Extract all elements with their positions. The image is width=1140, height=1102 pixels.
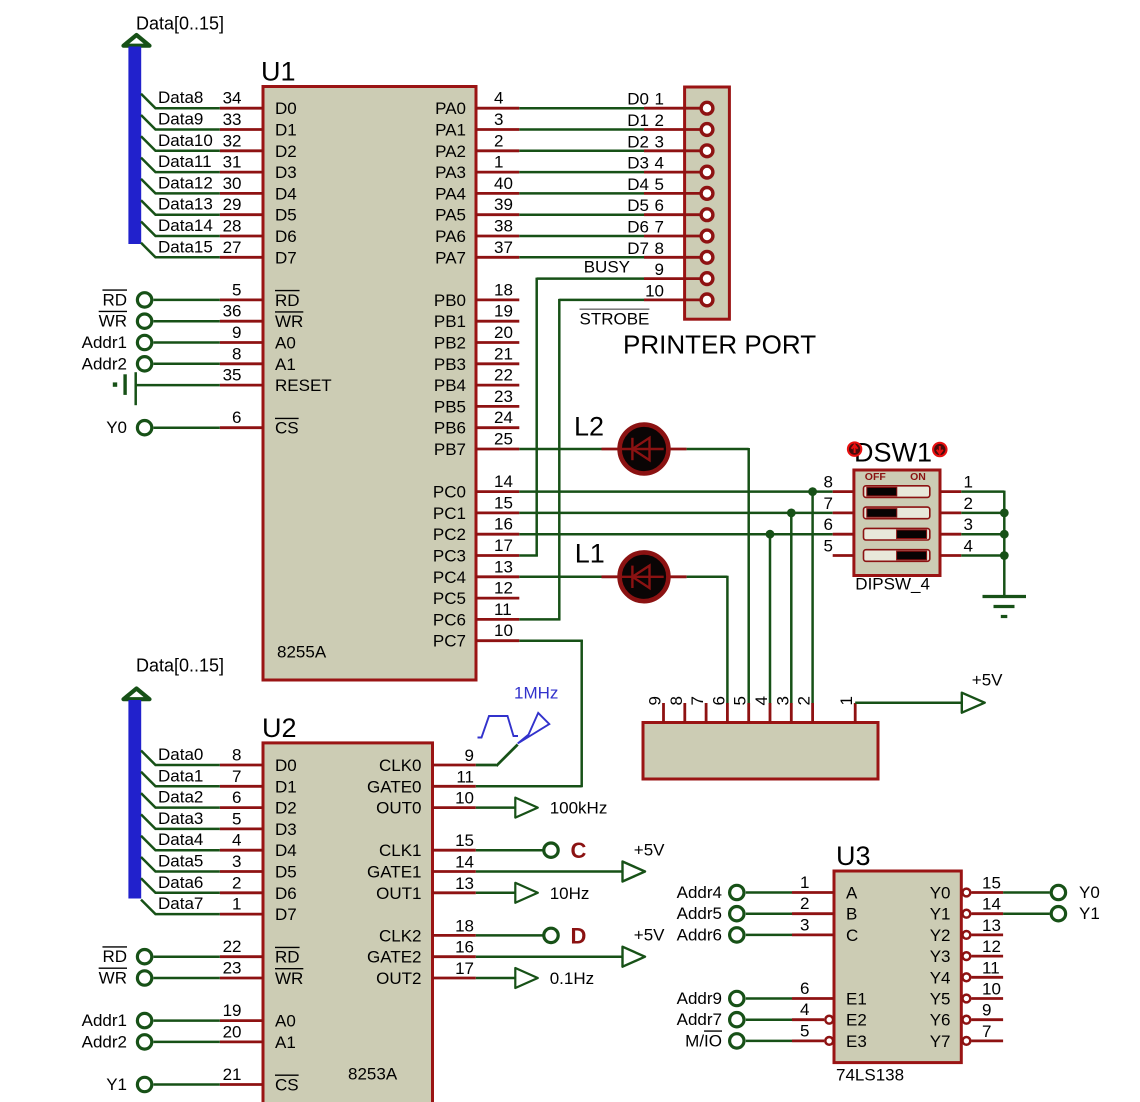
svg-text:PB5: PB5	[434, 397, 466, 416]
wire CLK2 to node D	[476, 934, 544, 937]
svg-text:D0: D0	[627, 90, 649, 109]
svg-text:13: 13	[494, 557, 513, 576]
svg-text:OUT2: OUT2	[376, 969, 421, 988]
pin 9 of printer port	[644, 260, 713, 284]
pin A1 (20) of U2	[220, 1022, 296, 1052]
svg-text:D4: D4	[275, 841, 297, 860]
svg-text:12: 12	[494, 579, 513, 598]
pin RD (5) of U1	[220, 280, 300, 310]
pin 5 of RP1	[731, 696, 750, 722]
pin D2 (6) of U2	[220, 788, 297, 818]
svg-text:9: 9	[646, 696, 665, 705]
pin D7 (27) of U1	[220, 238, 297, 267]
wire RP1 pin1 to +5V	[855, 701, 962, 704]
svg-text:8: 8	[232, 746, 241, 765]
svg-text:PA7: PA7	[435, 248, 466, 267]
pin A (1) of U3	[792, 873, 858, 903]
pin D4 (30) of U1	[220, 174, 297, 204]
svg-text:25: 25	[494, 430, 513, 449]
svg-text:1: 1	[655, 90, 664, 109]
svg-text:D7: D7	[275, 905, 297, 924]
svg-text:D2: D2	[627, 132, 649, 151]
svg-text:Addr7: Addr7	[677, 1010, 722, 1029]
pin Y1 (14) of U3	[930, 895, 1003, 924]
wire Data4 bus entry to U2	[141, 830, 220, 850]
pin 4 of printer port	[644, 154, 713, 178]
svg-text:STROBE: STROBE	[580, 310, 650, 329]
svg-text:U2: U2	[262, 713, 297, 743]
svg-text:33: 33	[223, 110, 242, 129]
svg-text:0.1Hz: 0.1Hz	[550, 969, 594, 988]
svg-text:D2: D2	[275, 142, 297, 161]
svg-text:Y6: Y6	[930, 1011, 951, 1030]
terminal Addr6 (to U3)	[677, 925, 792, 944]
pin RD (22) of U2	[220, 937, 300, 967]
svg-text:6: 6	[800, 979, 809, 998]
svg-text:7: 7	[982, 1022, 991, 1041]
pin Y0 (15) of U3	[930, 874, 1003, 903]
svg-text:D2: D2	[275, 799, 297, 818]
svg-text:D1: D1	[275, 121, 297, 140]
wire GATE1 to +5V	[476, 870, 623, 873]
svg-text:2: 2	[964, 494, 973, 513]
wire OUT0 to 100kHz	[476, 806, 516, 809]
wire Data2 bus entry to U2	[141, 788, 220, 808]
pin WR (36) of U1	[220, 302, 304, 332]
node C terminal	[544, 838, 587, 863]
svg-text:Data10: Data10	[158, 131, 213, 150]
pin GATE1 (14) of U2	[367, 853, 476, 882]
svg-text:A: A	[846, 884, 858, 903]
svg-text:D6: D6	[275, 884, 297, 903]
svg-text:U1: U1	[261, 57, 296, 87]
svg-text:PB7: PB7	[434, 440, 466, 459]
terminal WR (to U2)	[99, 968, 220, 987]
svg-text:5: 5	[731, 696, 750, 705]
svg-text:DIPSW_4: DIPSW_4	[855, 575, 930, 594]
svg-text:8253A: 8253A	[348, 1065, 398, 1084]
svg-text:Data[0..15]: Data[0..15]	[136, 656, 224, 676]
junction and branch to RP1 pin2	[808, 487, 817, 703]
svg-text:22: 22	[494, 366, 513, 385]
svg-text:2: 2	[795, 696, 814, 705]
IC U1 8255A body	[263, 87, 476, 681]
IC U2 8253A body	[263, 743, 433, 1102]
svg-text:D6: D6	[275, 227, 297, 246]
svg-text:9: 9	[982, 1001, 991, 1020]
svg-text:24: 24	[494, 408, 513, 427]
wire Data3 bus entry to U2	[141, 809, 220, 829]
svg-text:14: 14	[494, 472, 513, 491]
pin CS (21) of U2	[220, 1065, 299, 1095]
wire BUSY (printer pin9 to PC3)	[519, 278, 644, 557]
svg-text:CLK1: CLK1	[379, 841, 422, 860]
wire PA2 to printer D2	[519, 132, 649, 151]
connector J1 PRINTER PORT body	[685, 87, 730, 319]
terminal Y0 (from U3)	[1051, 883, 1100, 902]
svg-text:D4: D4	[627, 175, 649, 194]
pin Y6 (9) of U3	[930, 1001, 1003, 1030]
wire PA7 to printer D7	[519, 239, 649, 258]
svg-text:Data5: Data5	[158, 852, 203, 871]
pin PB2 (20) of U1	[434, 323, 519, 353]
svg-text:OUT0: OUT0	[376, 799, 421, 818]
wire PA0 to printer D0	[519, 90, 649, 109]
svg-text:28: 28	[223, 217, 242, 236]
wire PC2 to DSW1 pin6	[519, 533, 832, 536]
svg-text:Y1: Y1	[106, 1075, 127, 1094]
wire GATE2 to +5V	[476, 955, 623, 958]
svg-text:40: 40	[494, 174, 513, 193]
svg-text:Data11: Data11	[158, 152, 212, 171]
pin PA3 (1) of U1	[435, 153, 519, 183]
svg-text:Data8: Data8	[158, 88, 203, 107]
wire Data11 bus entry to U1	[141, 152, 220, 172]
svg-text:10: 10	[982, 980, 1001, 999]
svg-text:D0: D0	[275, 99, 297, 118]
DSW1 actuator buttons	[848, 442, 947, 456]
wire Data6 bus entry to U2	[141, 873, 220, 893]
svg-text:PA1: PA1	[435, 121, 466, 140]
terminal WR (to U1)	[99, 311, 220, 330]
svg-text:21: 21	[494, 344, 513, 363]
svg-text:20: 20	[494, 323, 513, 342]
svg-text:13: 13	[982, 916, 1001, 935]
svg-text:9: 9	[232, 323, 241, 342]
svg-text:D7: D7	[275, 248, 297, 267]
svg-text:2: 2	[800, 894, 809, 913]
svg-text:4: 4	[752, 696, 771, 705]
label U2 value 8253A	[348, 1065, 398, 1084]
svg-text:Data6: Data6	[158, 873, 203, 892]
svg-text:Addr2: Addr2	[82, 1032, 127, 1051]
pin D1 (7) of U2	[220, 767, 297, 797]
svg-text:ON: ON	[910, 471, 926, 483]
wire STROBE (printer pin10 to PC6)	[519, 299, 644, 621]
svg-text:10: 10	[494, 621, 513, 640]
pin 7 of printer port	[644, 218, 713, 242]
pin A0 (9) of U1	[220, 323, 296, 353]
pin Y2 (13) of U3	[930, 916, 1003, 945]
svg-text:23: 23	[223, 959, 242, 978]
svg-text:U3: U3	[836, 841, 871, 871]
svg-text:OUT1: OUT1	[376, 884, 421, 903]
pin PC6 (11) of U1	[433, 600, 519, 630]
svg-text:Y0: Y0	[1079, 883, 1100, 902]
pin E1 (6) of U3	[792, 979, 867, 1009]
svg-text:PC4: PC4	[433, 568, 466, 587]
svg-text:16: 16	[494, 515, 513, 534]
wire DSW1 pin4 to ground rail	[961, 509, 1008, 518]
svg-text:RD: RD	[275, 291, 300, 310]
svg-text:D4: D4	[275, 184, 297, 203]
signal arrow 100kHz	[515, 798, 607, 818]
wire DSW1 pin1 to ground rail	[961, 491, 1004, 596]
svg-text:PC5: PC5	[433, 589, 466, 608]
pin A1 (8) of U1	[220, 344, 296, 374]
pin OUT1 (13) of U2	[376, 874, 476, 903]
signal arrow 10Hz	[515, 883, 589, 903]
svg-text:100kHz: 100kHz	[550, 799, 608, 818]
svg-text:L2: L2	[574, 412, 604, 442]
svg-text:Y0: Y0	[930, 884, 951, 903]
pin PB6 (24) of U1	[434, 408, 519, 438]
pin PC1 (15) of U1	[433, 493, 519, 523]
svg-text:PB1: PB1	[434, 312, 466, 331]
svg-text:OFF: OFF	[865, 471, 887, 483]
svg-text:D5: D5	[275, 863, 297, 882]
svg-text:D3: D3	[275, 820, 297, 839]
pin OUT2 (17) of U2	[376, 959, 476, 988]
svg-text:17: 17	[455, 959, 474, 978]
pin 10 of printer port	[644, 281, 713, 305]
svg-text:5: 5	[655, 175, 664, 194]
junction and branch to RP1 pin3	[787, 509, 796, 704]
pin 6 of printer port	[644, 196, 713, 220]
svg-text:17: 17	[494, 536, 513, 555]
svg-text:PB4: PB4	[434, 376, 466, 395]
svg-text:8255A: 8255A	[277, 643, 327, 662]
label DSW1 reference	[854, 438, 932, 468]
pin 1 of RP1	[837, 696, 856, 722]
svg-text:3: 3	[232, 852, 241, 871]
wire PA4 to printer D4	[519, 175, 649, 194]
svg-text:8: 8	[667, 696, 686, 705]
svg-text:E1: E1	[846, 990, 867, 1009]
pin PA7 (37) of U1	[435, 238, 519, 267]
pin Y5 (10) of U3	[930, 980, 1003, 1009]
svg-text:Addr1: Addr1	[82, 333, 127, 352]
svg-text:Y0: Y0	[106, 418, 127, 437]
svg-text:15: 15	[494, 493, 513, 512]
pin PC7 (10) of U1	[433, 621, 519, 651]
svg-text:RD: RD	[102, 947, 127, 966]
pin PA6 (38) of U1	[435, 217, 519, 247]
svg-text:74LS138: 74LS138	[836, 1066, 904, 1085]
pin CLK0 (9) of U2	[379, 746, 476, 775]
label U3 reference	[836, 841, 871, 871]
pin GATE2 (16) of U2	[367, 938, 476, 967]
pin PA0 (4) of U1	[435, 89, 519, 119]
pin D5 (29) of U1	[220, 195, 297, 225]
node D terminal	[544, 923, 587, 948]
svg-text:GATE1: GATE1	[367, 863, 421, 882]
wire Data10 bus entry to U1	[141, 131, 220, 151]
svg-text:1MHz: 1MHz	[514, 684, 558, 703]
pin E3 (5) of U3	[792, 1021, 867, 1051]
label L2 reference	[574, 412, 604, 442]
svg-text:Addr4: Addr4	[677, 883, 722, 902]
svg-text:7: 7	[824, 494, 833, 513]
svg-text:15: 15	[982, 874, 1001, 893]
bus terminal Data[0..15] (top)	[124, 35, 150, 244]
svg-text:3: 3	[964, 515, 973, 534]
svg-text:6: 6	[232, 408, 241, 427]
wire CLK1 to node C	[476, 849, 544, 852]
svg-text:PA4: PA4	[435, 184, 466, 203]
label OFF	[865, 471, 887, 483]
pin Y7 (7) of U3	[930, 1022, 1003, 1051]
svg-text:+5V: +5V	[972, 671, 1003, 690]
svg-text:8: 8	[655, 239, 664, 258]
pin D4 (4) of U2	[220, 831, 297, 861]
pin D6 (2) of U2	[220, 873, 297, 903]
wire PA3 to printer D3	[519, 154, 649, 173]
svg-text:7: 7	[232, 767, 241, 786]
wire PA6 to printer D6	[519, 218, 649, 237]
svg-text:23: 23	[494, 387, 513, 406]
svg-text:11: 11	[456, 767, 474, 786]
svg-text:CS: CS	[275, 1076, 299, 1095]
svg-text:WR: WR	[99, 312, 127, 331]
svg-text:19: 19	[223, 1001, 242, 1020]
pin PA4 (40) of U1	[435, 174, 519, 204]
svg-text:8: 8	[232, 344, 241, 363]
terminal Addr9 (to U3)	[677, 989, 792, 1008]
pin PC2 (16) of U1	[433, 515, 519, 545]
signal arrow 0.1Hz	[515, 968, 594, 988]
svg-text:5: 5	[232, 280, 241, 299]
svg-text:4: 4	[232, 831, 241, 850]
switch element 6-3 of DSW1	[824, 515, 973, 540]
terminal Addr2 (to U1)	[82, 354, 220, 373]
svg-text:Addr2: Addr2	[82, 354, 127, 373]
svg-text:PB3: PB3	[434, 355, 466, 374]
svg-text:GATE2: GATE2	[367, 948, 421, 967]
pin WR (23) of U2	[220, 959, 304, 989]
svg-text:D5: D5	[275, 206, 297, 225]
terminal Addr1 (to U1)	[82, 333, 220, 352]
pin 1 of printer port	[644, 90, 713, 114]
bus terminal Data[0..15] (bottom)	[124, 689, 150, 899]
svg-text:12: 12	[982, 937, 1001, 956]
wire OUT1 to 10Hz	[476, 892, 516, 895]
wire DSW1 pin6 to ground rail	[961, 551, 1008, 560]
terminal Addr7 (to U3)	[677, 1010, 792, 1029]
svg-text:PA0: PA0	[435, 99, 466, 118]
svg-text:2: 2	[494, 131, 503, 150]
svg-text:D: D	[571, 923, 587, 948]
svg-text:18: 18	[455, 916, 474, 935]
wire Data1 bus entry to U2	[141, 766, 220, 786]
pin PA2 (2) of U1	[435, 131, 519, 161]
switch element 5-4 of DSW1	[824, 537, 973, 562]
label U3 value 74LS138	[836, 1066, 904, 1085]
pin D0 (8) of U2	[220, 746, 297, 776]
svg-text:PC2: PC2	[433, 525, 466, 544]
svg-text:6: 6	[709, 696, 728, 705]
svg-text:32: 32	[223, 131, 242, 150]
svg-text:3: 3	[800, 915, 809, 934]
svg-text:1: 1	[837, 696, 856, 705]
pin Y4 (11) of U3	[930, 958, 1003, 987]
svg-text:C: C	[571, 838, 587, 863]
svg-text:CS: CS	[275, 419, 299, 438]
svg-text:B: B	[846, 905, 857, 924]
svg-text:D7: D7	[627, 239, 649, 258]
svg-text:4: 4	[655, 154, 664, 173]
label bus Data[0..15] (bottom)	[136, 656, 224, 676]
pin GATE0 (11) of U2	[367, 767, 476, 796]
svg-text:Y5: Y5	[930, 990, 951, 1009]
svg-text:WR: WR	[99, 969, 127, 988]
pin A0 (19) of U2	[220, 1001, 296, 1031]
svg-text:Data14: Data14	[158, 216, 213, 235]
svg-text:15: 15	[455, 831, 474, 850]
wire Data15 bus entry to U1	[141, 237, 220, 257]
svg-text:RESET: RESET	[275, 376, 332, 395]
pin PB7 (25) of U1	[434, 430, 519, 460]
power +5V (GATE1)	[623, 841, 666, 882]
svg-text:+5V: +5V	[634, 926, 665, 945]
svg-text:29: 29	[223, 195, 242, 214]
svg-text:Data7: Data7	[158, 894, 203, 913]
svg-text:D1: D1	[627, 111, 649, 130]
power +5V (GATE2)	[623, 926, 666, 967]
power +5V (resistor pack)	[962, 671, 1003, 713]
svg-text:WR: WR	[275, 969, 303, 988]
svg-text:Data[0..15]: Data[0..15]	[136, 14, 224, 34]
svg-text:PC3: PC3	[433, 547, 466, 566]
pin D0 (34) of U1	[220, 89, 297, 119]
svg-text:37: 37	[494, 238, 513, 257]
svg-text:D1: D1	[275, 777, 297, 796]
pin PB4 (22) of U1	[434, 366, 519, 396]
svg-text:Data15: Data15	[158, 237, 213, 256]
terminal M/IO (to U3)	[685, 1031, 792, 1050]
pin B (2) of U3	[792, 894, 857, 924]
svg-text:C: C	[846, 926, 858, 945]
svg-text:6: 6	[655, 196, 664, 215]
wire Data0 bus entry to U2	[141, 745, 220, 765]
svg-text:35: 35	[223, 366, 242, 385]
wire PC4 to LED L1	[519, 576, 601, 579]
pin 3 of RP1	[773, 696, 792, 722]
terminal Addr2 (to U2)	[82, 1032, 220, 1051]
svg-text:PA2: PA2	[435, 142, 466, 161]
pin PB0 (18) of U1	[434, 280, 519, 310]
svg-text:RD: RD	[102, 290, 127, 309]
svg-text:19: 19	[494, 302, 513, 321]
wire Data12 bus entry to U1	[141, 173, 220, 193]
wire LED L1 to RP1 pin6	[687, 576, 728, 704]
label U2 reference	[262, 713, 297, 743]
pin PC0 (14) of U1	[433, 472, 519, 502]
pin D5 (3) of U2	[220, 852, 297, 882]
svg-text:PB6: PB6	[434, 419, 466, 438]
switch element 7-2 of DSW1	[824, 494, 973, 519]
svg-text:21: 21	[223, 1065, 242, 1084]
pin 8 of RP1	[667, 696, 686, 722]
svg-text:1: 1	[232, 895, 241, 914]
wire Data7 bus entry to U2	[141, 894, 220, 914]
wire U3 Y1 to terminal	[1003, 912, 1050, 915]
svg-text:27: 27	[223, 238, 242, 257]
svg-text:1: 1	[964, 473, 973, 492]
label 1MHz	[514, 684, 558, 703]
svg-text:A0: A0	[275, 334, 296, 353]
clock generator 1MHz symbol	[478, 713, 550, 744]
pin OUT0 (10) of U2	[376, 789, 476, 818]
svg-text:A0: A0	[275, 1012, 296, 1031]
pin 8 of printer port	[644, 239, 713, 263]
svg-text:6: 6	[824, 515, 833, 534]
svg-text:4: 4	[964, 537, 973, 556]
svg-text:31: 31	[223, 153, 242, 172]
svg-text:Data2: Data2	[158, 788, 203, 807]
pin Y3 (12) of U3	[930, 937, 1003, 966]
pin PC3 (17) of U1	[433, 536, 519, 566]
